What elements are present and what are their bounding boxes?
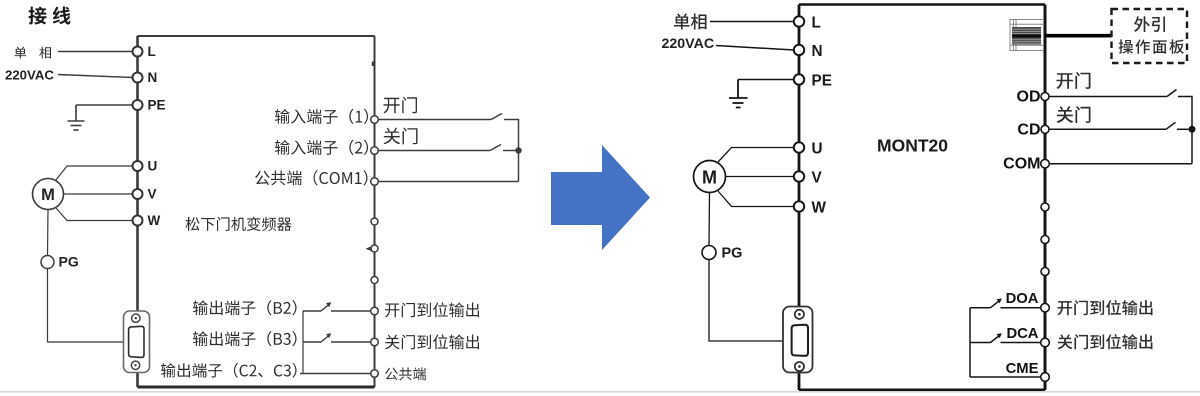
svg-text:L: L bbox=[812, 15, 821, 32]
switch open-door left bbox=[491, 114, 502, 120]
wire 220VAC to N bbox=[58, 75, 133, 78]
left box left edge upper bbox=[136, 36, 139, 311]
label 关门 left bbox=[384, 128, 418, 145]
motor M left bbox=[33, 179, 64, 210]
wire B3 switch to terminal bbox=[331, 341, 371, 343]
encoder PG left bbox=[41, 256, 54, 269]
terminal input1 left box bbox=[371, 116, 379, 124]
left box left edge lower bbox=[136, 373, 139, 388]
svg-text:W: W bbox=[812, 200, 827, 217]
label 松下门机变频器 bbox=[186, 217, 292, 231]
terminal OD right box bbox=[1041, 93, 1049, 101]
terminal N right bbox=[794, 45, 804, 55]
wire bracket to DCA switch bbox=[970, 342, 991, 344]
terminal spare1 left box bbox=[371, 218, 378, 225]
label 单相 left bbox=[15, 47, 52, 59]
D-sub connector body left bbox=[124, 311, 150, 373]
D-sub inner D right bbox=[792, 325, 808, 356]
wire M to PG left bbox=[47, 210, 50, 256]
terminal W left bbox=[133, 216, 143, 226]
label 开门到位输出 right bbox=[1058, 300, 1153, 315]
D-sub inner D left bbox=[129, 326, 144, 357]
wire input1 to switch bbox=[379, 119, 492, 121]
D-sub screw bottom right bbox=[795, 362, 804, 371]
notch on spare2 terminal bbox=[366, 247, 371, 251]
svg-text:COM: COM bbox=[1003, 156, 1040, 173]
wire OD to switch bbox=[1049, 96, 1167, 98]
right box left edge upper bbox=[798, 5, 801, 307]
svg-text:MONT20: MONT20 bbox=[877, 136, 948, 156]
ground symbol right bbox=[729, 80, 748, 108]
right box left edge lower bbox=[798, 373, 801, 391]
small mark on right edge bbox=[372, 62, 375, 67]
motor M right bbox=[694, 161, 726, 193]
wire OD switch to bus bbox=[1178, 96, 1192, 98]
svg-text:M: M bbox=[702, 167, 717, 187]
svg-text:N: N bbox=[812, 43, 823, 60]
wire COM bbox=[1049, 163, 1192, 165]
svg-text:PG: PG bbox=[722, 246, 743, 262]
terminal B2 left box bbox=[371, 307, 379, 315]
switch DCA bbox=[991, 335, 1001, 343]
wire B2 switch to terminal bbox=[331, 310, 371, 312]
input bus vertical right bbox=[1191, 96, 1193, 164]
svg-text:U: U bbox=[812, 141, 823, 158]
terminal PE right bbox=[794, 74, 804, 84]
label 操作面板 bbox=[1119, 39, 1185, 54]
svg-text:220VAC: 220VAC bbox=[662, 36, 715, 52]
junction dot left bbox=[516, 148, 521, 153]
label 输入端子（1） bbox=[275, 109, 368, 124]
label 输出端子（B2） bbox=[193, 300, 297, 315]
terminal spareA right box bbox=[1041, 203, 1049, 211]
wire 单相 to L right bbox=[710, 21, 794, 23]
terminal V left bbox=[133, 189, 143, 199]
wire DOA switch to terminal bbox=[1001, 307, 1041, 309]
encoder PG right bbox=[702, 246, 716, 260]
label 输出端子（C2、C3） bbox=[161, 363, 296, 378]
label 公共端 left bbox=[385, 367, 426, 380]
svg-text:PE: PE bbox=[148, 98, 166, 113]
label 外引 bbox=[1134, 16, 1165, 32]
D-sub screw top right bbox=[795, 310, 804, 319]
left box top edge bbox=[138, 35, 375, 37]
switch B3 output bbox=[321, 335, 330, 342]
wire M to W right bbox=[718, 191, 794, 207]
svg-text:OD: OD bbox=[1017, 89, 1041, 106]
blue arrow bbox=[551, 145, 650, 250]
wire ground to PE right bbox=[738, 79, 794, 81]
title 接线 bbox=[29, 7, 71, 25]
wire B2 to switch bbox=[303, 310, 321, 312]
svg-text:220VAC: 220VAC bbox=[5, 68, 54, 83]
label 开门到位输出 left bbox=[385, 302, 479, 317]
ground symbol left bbox=[68, 105, 85, 130]
terminal L left bbox=[133, 47, 143, 57]
wire switch1 to bus bbox=[504, 119, 519, 121]
wire CD to switch bbox=[1049, 128, 1166, 130]
svg-text:L: L bbox=[148, 44, 156, 59]
svg-text:PE: PE bbox=[812, 73, 832, 90]
wire input2 to switch bbox=[379, 150, 491, 152]
input bus vertical left bbox=[518, 119, 520, 182]
label 输出端子（B3） bbox=[193, 331, 297, 346]
terminal spareB right box bbox=[1041, 236, 1049, 244]
switch DOA bbox=[991, 300, 1001, 308]
label 单相 right bbox=[674, 13, 707, 29]
left box bottom edge bbox=[138, 386, 375, 389]
terminal U left bbox=[133, 161, 143, 171]
terminal CME right box bbox=[1041, 373, 1050, 382]
external keypad dashed box bbox=[1112, 9, 1188, 63]
output bracket vertical left bbox=[302, 311, 304, 374]
svg-text:V: V bbox=[812, 170, 823, 187]
terminal COM right box bbox=[1041, 159, 1050, 168]
wire B3 to switch bbox=[303, 341, 321, 343]
terminal spareC right box bbox=[1041, 268, 1049, 276]
right box top edge bbox=[799, 3, 1045, 6]
terminal COM1 left box bbox=[371, 178, 379, 186]
svg-text:W: W bbox=[148, 213, 161, 228]
svg-text:CD: CD bbox=[1017, 121, 1040, 138]
svg-text:PG: PG bbox=[59, 254, 79, 270]
label 关门到位输出 left bbox=[385, 334, 479, 349]
switch CD bbox=[1166, 122, 1176, 129]
wire ground to PE bbox=[76, 104, 133, 106]
svg-text:M: M bbox=[41, 186, 55, 204]
svg-text:U: U bbox=[148, 159, 158, 174]
terminal PE left bbox=[133, 100, 143, 110]
terminal L right bbox=[794, 16, 804, 26]
svg-text:CME: CME bbox=[1006, 361, 1039, 377]
terminal N left bbox=[133, 73, 143, 83]
terminal input2 left box bbox=[371, 147, 379, 155]
terminal DOA right box bbox=[1041, 303, 1050, 312]
terminal C2C3 left box bbox=[371, 370, 379, 378]
switch OD bbox=[1167, 90, 1177, 97]
svg-text:DCA: DCA bbox=[1006, 326, 1038, 342]
svg-text:DOA: DOA bbox=[1006, 291, 1039, 307]
wire M to W left bbox=[56, 208, 133, 221]
terminal W right bbox=[794, 201, 804, 211]
right box bottom edge bbox=[799, 389, 1045, 392]
wire M to U left bbox=[56, 166, 133, 180]
terminal spare2 left box bbox=[371, 245, 378, 252]
wire PG to connector left bbox=[48, 269, 125, 343]
wire 单相 to L bbox=[58, 51, 133, 53]
label 开门 right bbox=[1057, 72, 1091, 89]
label 开门 left bbox=[383, 97, 417, 114]
terminal V right bbox=[794, 171, 804, 181]
output bracket vertical right bbox=[969, 308, 971, 377]
wire M to V left bbox=[64, 193, 134, 195]
wire M to U right bbox=[718, 148, 794, 163]
junction dot right bbox=[1189, 126, 1195, 132]
D-sub screw top left bbox=[132, 314, 140, 322]
RJ45 keypad connector icon bbox=[1010, 20, 1044, 51]
D-sub screw bottom left bbox=[131, 361, 139, 369]
terminal spare3 left box bbox=[371, 277, 378, 284]
wire switch2 to bus bbox=[503, 150, 519, 152]
wire CD switch to bus bbox=[1177, 128, 1192, 130]
wire M to V right bbox=[726, 176, 795, 178]
label 关门到位输出 right bbox=[1057, 334, 1152, 349]
wire CME bbox=[970, 376, 1041, 378]
wire DCA switch to terminal bbox=[1001, 342, 1041, 344]
wire PG to connector right bbox=[709, 260, 783, 342]
wire COM1 bbox=[379, 181, 519, 183]
wire M to PG right bbox=[708, 193, 711, 246]
wire C2C3 to terminal bbox=[300, 373, 371, 375]
right box right edge bbox=[1044, 5, 1047, 391]
left box right edge bbox=[374, 36, 376, 387]
label 关门 right bbox=[1056, 106, 1090, 123]
keypad cable bbox=[1045, 34, 1112, 38]
switch close-door left bbox=[490, 145, 501, 151]
terminal CD right box bbox=[1041, 125, 1049, 133]
terminal B3 left box bbox=[371, 338, 379, 346]
faint page divider line bbox=[0, 391, 1200, 393]
svg-text:V: V bbox=[148, 187, 157, 202]
switch B2 output bbox=[321, 304, 330, 311]
wire 220VAC to N right bbox=[716, 46, 794, 51]
label 公共端（COM1） bbox=[255, 170, 367, 185]
terminal U right bbox=[794, 142, 804, 152]
terminal DCA right box bbox=[1041, 338, 1050, 347]
label 输入端子（2） bbox=[275, 140, 368, 155]
wire bracket to DOA switch bbox=[970, 307, 991, 309]
svg-text:N: N bbox=[148, 70, 158, 85]
D-sub connector body right bbox=[783, 307, 813, 373]
